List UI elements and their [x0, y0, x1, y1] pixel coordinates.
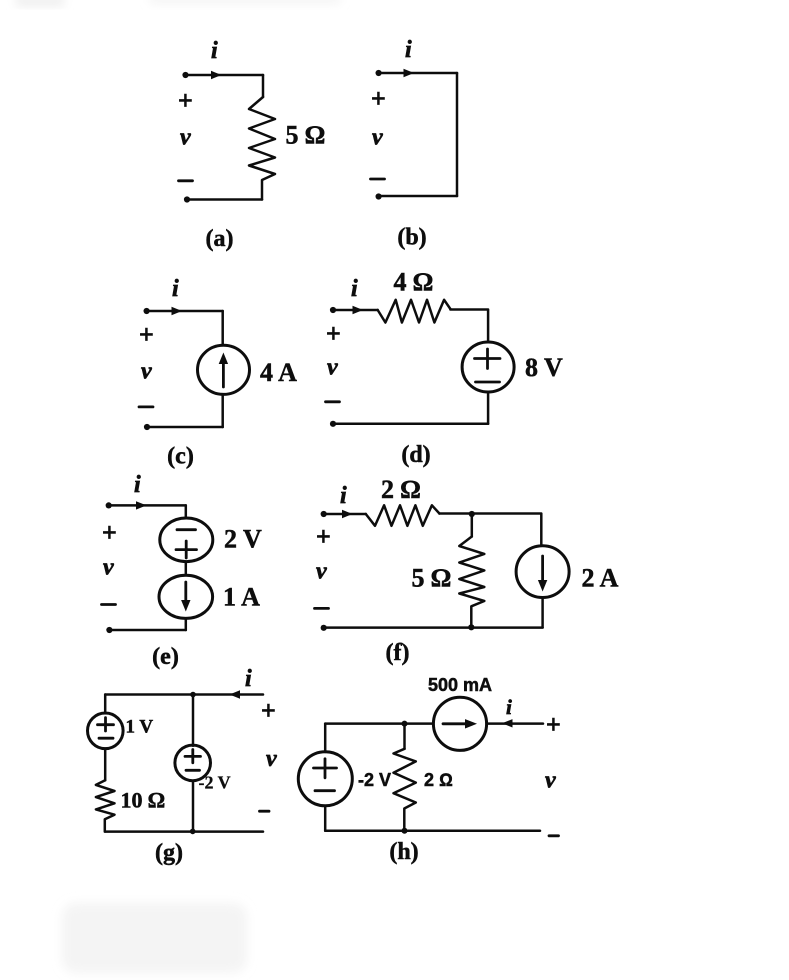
- svg-text:1 V: 1 V: [126, 717, 154, 738]
- svg-text:i: i: [134, 472, 141, 498]
- current arrow on top wire (f): [342, 510, 353, 518]
- svg-text:v: v: [372, 125, 383, 151]
- plus sign inside source -2V (g): [185, 750, 201, 763]
- current arrow on top wire (a): [211, 71, 222, 79]
- minus sign inside (top) (e): [177, 528, 196, 531]
- wire: top wire (g): [105, 693, 263, 696]
- svg-text:v: v: [180, 125, 191, 151]
- svg-text:i: i: [405, 37, 412, 63]
- svg-text:2 Ω: 2 Ω: [381, 475, 421, 504]
- node: left bottom terminal dot (a): [184, 196, 190, 202]
- svg-text:i: i: [351, 276, 358, 302]
- voltage source circle -2V (h): [298, 752, 352, 806]
- node: left bottom terminal dot (b): [376, 193, 382, 199]
- svg-text:v: v: [103, 555, 114, 581]
- wire: top-left wire (f): [324, 513, 366, 516]
- wire: middle vertical upper (g): [192, 695, 195, 746]
- voltage source circle 1V (g): [88, 713, 124, 749]
- svg-text:(d): (d): [401, 442, 430, 468]
- svg-text:(c): (c): [167, 444, 194, 470]
- wire: top wire (a): [186, 74, 264, 77]
- wire: middle branch upper (f): [471, 514, 474, 537]
- svg-text:i: i: [340, 483, 347, 509]
- svg-text:10 Ω: 10 Ω: [121, 788, 166, 813]
- scan smudge bottom-left: [62, 903, 247, 973]
- wire: left vertical below source (g): [104, 749, 107, 781]
- node: left bottom terminal dot (c): [144, 424, 150, 430]
- wire: bottom wire (b): [379, 195, 457, 198]
- wire: right vertical (b): [456, 73, 459, 196]
- wire: bottom wire (h): [325, 830, 540, 833]
- node: left top terminal dot (e): [106, 502, 112, 508]
- svg-text:i: i: [172, 276, 179, 302]
- node: left bottom terminal dot (e): [106, 627, 112, 633]
- svg-text:-2 V: -2 V: [199, 773, 231, 793]
- plus sign inside source (h): [314, 759, 337, 778]
- svg-text:+: +: [178, 86, 193, 115]
- arrow down inside source (e): [184, 582, 187, 604]
- wire: bottom wire (d): [333, 423, 488, 426]
- wire: right branch vertical (f): [540, 514, 543, 546]
- node: left bottom terminal dot (d): [330, 421, 336, 427]
- wire: vertical to source (c): [221, 311, 224, 345]
- wire: top wire left of source (h): [325, 722, 433, 725]
- node: junction dot top middle (g): [190, 692, 196, 698]
- arrow right inside source (h): [443, 722, 466, 725]
- wire: right vertical into resistor (a): [262, 75, 265, 97]
- minus sign inside source -2V (g): [186, 769, 200, 772]
- wire: top wire (c): [147, 310, 223, 313]
- arrow down inside source (f): [541, 556, 544, 584]
- svg-text:4 A: 4 A: [260, 358, 297, 387]
- svg-text:2 V: 2 V: [224, 525, 262, 554]
- node: left top terminal dot (f): [321, 511, 327, 517]
- node: left top terminal dot (c): [144, 308, 150, 314]
- svg-text:v: v: [545, 768, 556, 794]
- plus sign inside source (d): [475, 349, 501, 369]
- resistor R 5ohm zigzag (a): [249, 97, 275, 200]
- node: junction dot top middle (h): [402, 721, 408, 727]
- node: junction dot bottom middle (f): [468, 624, 474, 630]
- svg-text:(f): (f): [386, 640, 410, 666]
- current source circle 2A (f): [516, 546, 569, 598]
- wire: middle vertical lower (g): [192, 781, 195, 832]
- wire: top wire (b): [379, 72, 457, 75]
- current arrow on top wire (e): [136, 501, 147, 509]
- wire: bottom wire (g): [105, 830, 263, 833]
- wire: top wire (e): [109, 504, 186, 507]
- svg-text:5 Ω: 5 Ω: [412, 564, 452, 593]
- svg-text:i: i: [211, 38, 218, 64]
- current arrow on top wire (c): [172, 307, 183, 315]
- label minus terminal (f): [315, 607, 329, 610]
- label minus terminal (e): [102, 603, 116, 606]
- svg-text:-2 V: -2 V: [358, 770, 391, 790]
- svg-text:(e): (e): [152, 644, 179, 670]
- wire: below source (e): [185, 618, 188, 630]
- svg-text:+: +: [326, 319, 341, 348]
- svg-text:2 Ω: 2 Ω: [424, 770, 453, 790]
- svg-text:+: +: [261, 696, 276, 725]
- label minus terminal right (h): [549, 834, 559, 837]
- label minus terminal (d): [326, 400, 340, 403]
- svg-text:(a): (a): [206, 226, 234, 252]
- node: left bottom terminal dot (f): [321, 625, 327, 631]
- wire: bottom wire (f): [324, 626, 543, 629]
- svg-text:+: +: [316, 522, 331, 551]
- resistor R 2ohm zigzag (h): [394, 749, 416, 831]
- wire: bottom wire (e): [109, 629, 185, 632]
- minus sign inside source 1V (g): [99, 737, 113, 740]
- wire: left vertical to source (g): [104, 695, 107, 714]
- wire: top wire right of source (h): [487, 722, 543, 725]
- svg-text:+: +: [139, 320, 154, 349]
- plus sign inside source 1V (g): [98, 718, 114, 731]
- svg-text:(g): (g): [155, 840, 183, 866]
- wire: top-left wire (d): [333, 309, 378, 312]
- svg-text:+: +: [546, 710, 561, 739]
- node: left top terminal dot (d): [330, 307, 336, 313]
- resistor R 10ohm zigzag (g): [96, 780, 115, 831]
- current arrow pointing left on top wire (g): [230, 690, 241, 698]
- current arrow on top wire (d): [353, 306, 364, 314]
- minus sign inside source (d): [476, 381, 500, 384]
- current source circle 4A (c): [198, 345, 250, 394]
- voltage source circle -2V (g): [175, 745, 211, 781]
- svg-text:(b): (b): [397, 225, 426, 251]
- wire: top wire to right branch (f): [439, 512, 541, 515]
- node: junction dot bottom middle (h): [402, 828, 408, 834]
- label minus terminal (c): [139, 405, 153, 408]
- svg-text:4 Ω: 4 Ω: [394, 268, 434, 297]
- current arrow on top wire (b): [404, 69, 415, 77]
- svg-text:500 mA: 500 mA: [428, 675, 492, 695]
- svg-text:v: v: [316, 559, 327, 585]
- svg-text:v: v: [327, 355, 338, 381]
- wire: vertical below source (c): [221, 394, 224, 427]
- wire: vertical into V source (e): [185, 505, 188, 518]
- current source circle 1A (e): [159, 575, 213, 618]
- wire: middle vertical upper (h): [403, 724, 406, 749]
- svg-text:v: v: [266, 746, 277, 772]
- label minus terminal (b): [371, 178, 385, 181]
- wire: bottom wire (a): [187, 198, 262, 201]
- svg-text:5 Ω: 5 Ω: [286, 121, 326, 150]
- arrow up inside source (c): [222, 359, 225, 387]
- node: junction dot bottom middle (g): [190, 829, 196, 835]
- svg-text:1 A: 1 A: [223, 583, 260, 612]
- wire: between sources (e): [185, 562, 188, 576]
- wire: left vertical upper (h): [324, 724, 327, 752]
- resistor R 4ohm zigzag (d): [378, 300, 451, 323]
- svg-text:+: +: [371, 84, 386, 113]
- wire: below source (d): [487, 392, 490, 424]
- voltage source circle 8V (d): [462, 342, 514, 392]
- label minus terminal (a): [179, 179, 193, 182]
- svg-text:(h): (h): [389, 839, 418, 865]
- resistor R 2ohm zigzag (f): [366, 505, 440, 526]
- wire: below source (f): [541, 598, 544, 628]
- label minus terminal right (g): [260, 810, 270, 813]
- wire: bottom wire (c): [147, 426, 223, 429]
- svg-text:i: i: [245, 666, 252, 692]
- plus sign inside (bottom) (e): [176, 541, 197, 558]
- node: junction dot top middle (f): [469, 511, 475, 517]
- wire: left vertical lower (h): [324, 806, 327, 831]
- svg-text:2 A: 2 A: [582, 564, 619, 593]
- scan smudge top-left: [16, 0, 340, 6]
- svg-text:v: v: [141, 359, 152, 385]
- voltage source circle 2V (e): [160, 518, 213, 562]
- minus sign inside source (h): [315, 789, 335, 792]
- svg-text:8 V: 8 V: [525, 353, 563, 382]
- node: left top terminal dot (a): [182, 72, 188, 78]
- node: left top terminal dot (b): [376, 70, 382, 76]
- wire: top-right wire and corner (d): [450, 310, 488, 343]
- svg-text:+: +: [102, 518, 117, 547]
- current source circle 500mA (h): [433, 697, 486, 750]
- resistor R 5ohm zigzag (f): [459, 537, 484, 628]
- svg-text:i: i: [506, 695, 512, 719]
- current arrow pointing left (h): [502, 719, 513, 727]
